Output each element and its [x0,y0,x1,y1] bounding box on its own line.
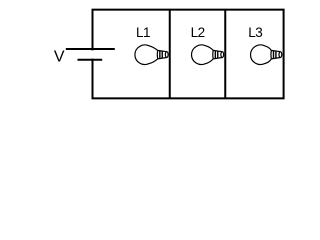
svg-text:L1: L1 [136,25,150,40]
svg-text:L3: L3 [248,25,262,40]
wire branch L2 [224,10,226,99]
wire branch L1 [169,10,171,99]
wire outer loop [93,10,284,99]
lamp L2 [192,45,224,65]
svg-text:V: V [54,49,65,66]
svg-text:L2: L2 [191,25,205,40]
lamp L3 [251,45,282,65]
lamp L1 [135,45,168,65]
battery V [66,49,115,60]
